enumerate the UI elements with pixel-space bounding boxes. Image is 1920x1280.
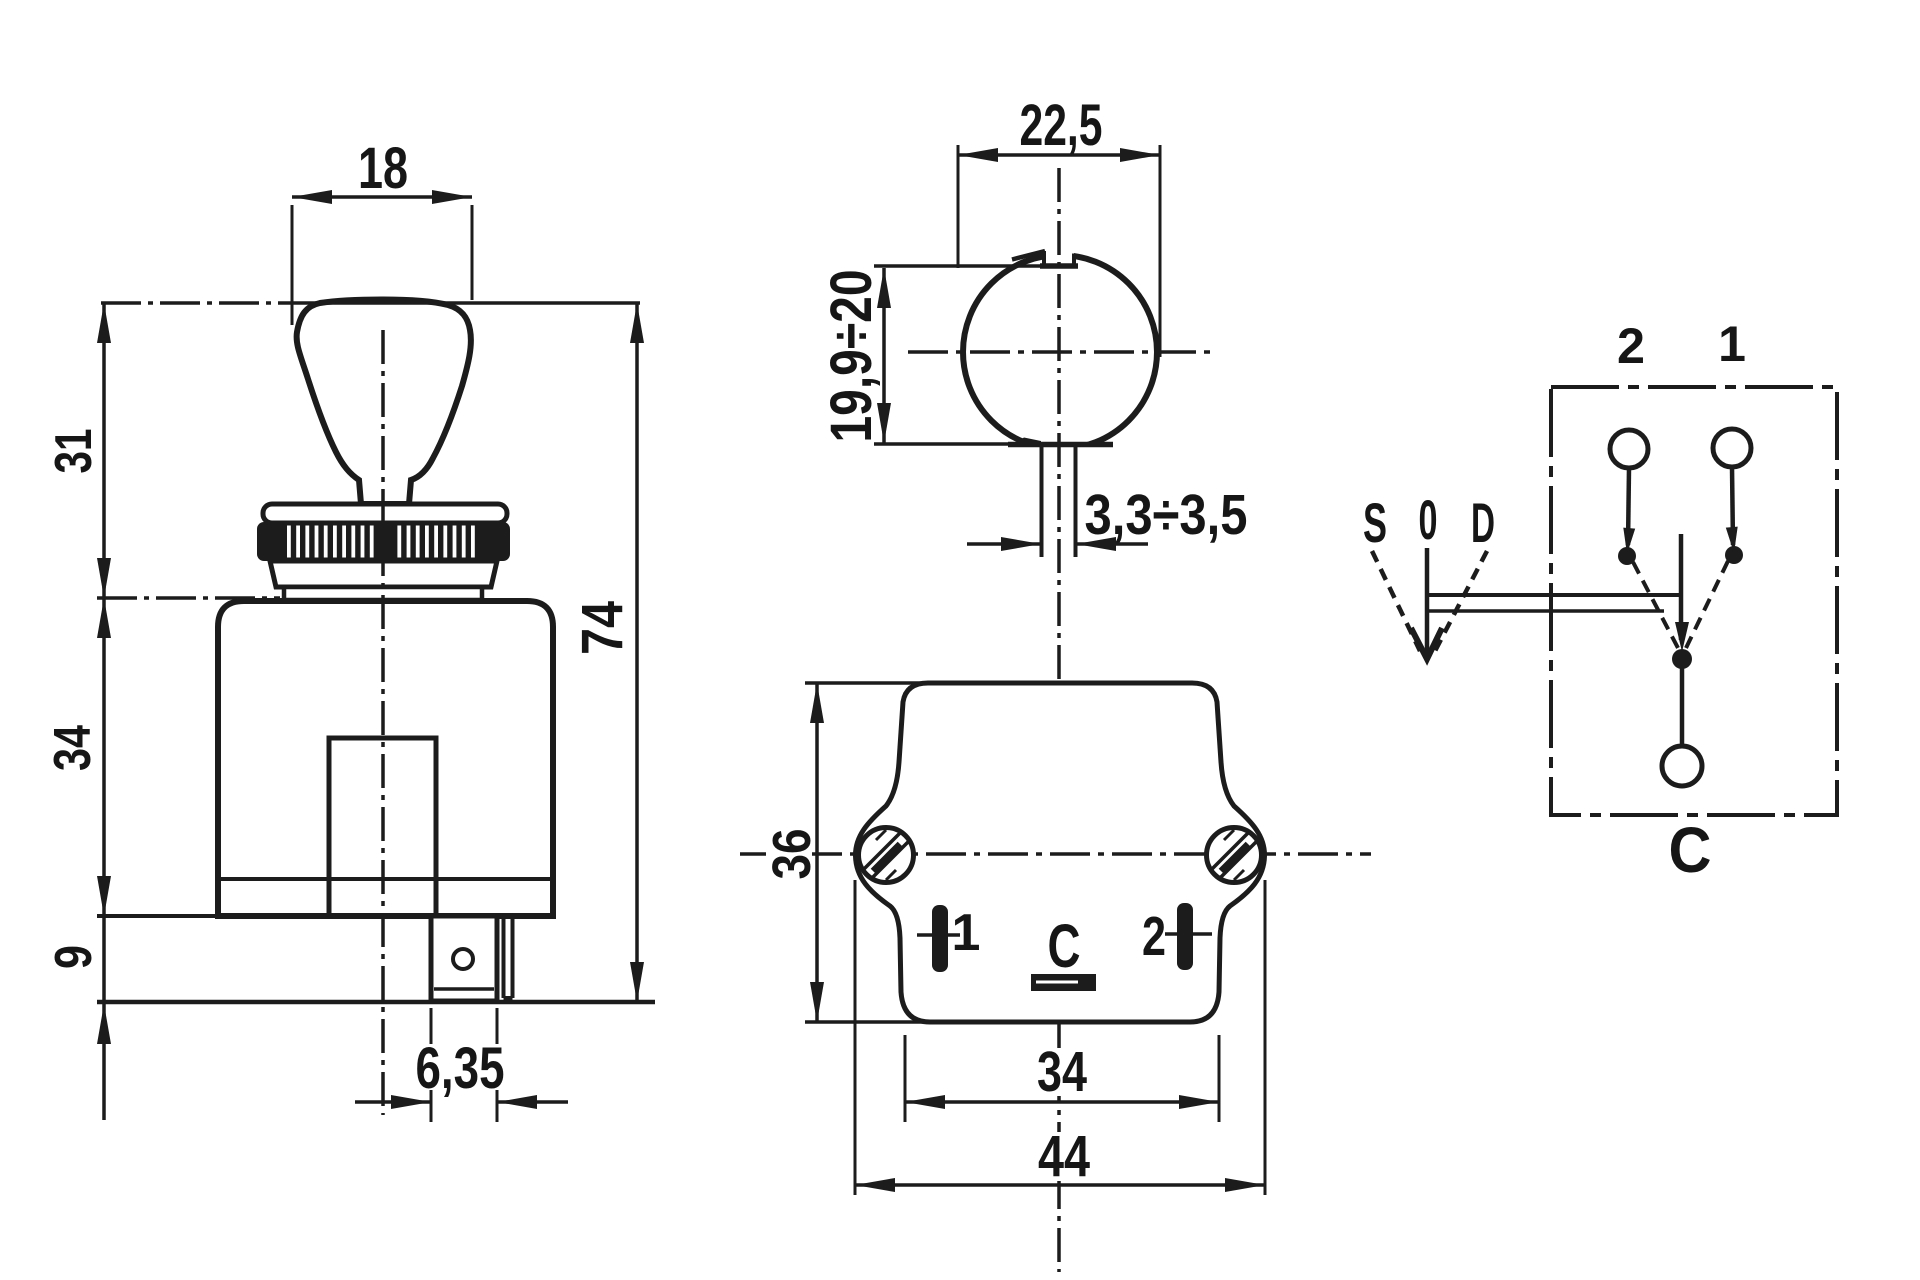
svg-text:1: 1 xyxy=(1718,316,1746,372)
terminal C slot xyxy=(1031,974,1096,991)
centerlines of top view xyxy=(908,350,1214,354)
svg-text:34: 34 xyxy=(1037,1040,1087,1104)
blade hole xyxy=(453,949,473,969)
svg-text:3,3÷3,5: 3,3÷3,5 xyxy=(1085,483,1248,547)
dimension 19,9-20 xyxy=(882,268,886,443)
lever D position dashed xyxy=(1434,551,1487,653)
bottom flat and slot xyxy=(1029,444,1091,470)
svg-text:74: 74 xyxy=(570,601,635,655)
left screw xyxy=(859,828,914,883)
base outline with ears xyxy=(855,683,1264,1022)
svg-text:2: 2 xyxy=(1617,318,1645,374)
terminal 2 slot xyxy=(1177,903,1193,970)
top datum line (y=303) xyxy=(101,301,295,305)
terminal 1 circle xyxy=(1713,429,1751,467)
body flange line xyxy=(218,877,553,881)
nut bottom lip xyxy=(284,587,482,600)
schematic dash-dot border xyxy=(1551,387,1837,815)
knob (toggle lever) xyxy=(297,300,471,505)
svg-text:31: 31 xyxy=(45,429,103,474)
svg-text:0: 0 xyxy=(1419,488,1438,551)
dimension 74 xyxy=(635,303,639,1002)
base horizontal centerline xyxy=(740,852,1371,856)
base line (bottom datum) xyxy=(97,1000,655,1005)
svg-text:44: 44 xyxy=(1038,1124,1090,1189)
dashed throw 1-C xyxy=(1686,561,1728,648)
slot lines 3,3-3,5 xyxy=(1040,444,1044,557)
svg-text:D: D xyxy=(1471,491,1495,554)
svg-text:19,9÷20: 19,9÷20 xyxy=(819,270,884,443)
svg-text:9: 9 xyxy=(45,945,103,969)
body inner window xyxy=(329,738,436,916)
dimension 36 xyxy=(766,824,812,884)
dashed throw 2-C xyxy=(1633,562,1678,648)
knob circle xyxy=(963,255,1157,449)
svg-text:C: C xyxy=(1669,814,1712,886)
svg-text:S: S xyxy=(1363,491,1387,554)
terminal C circle xyxy=(1662,746,1702,786)
svg-text:18: 18 xyxy=(358,136,408,201)
moving contact arm xyxy=(1679,534,1684,640)
contact stem from 1 xyxy=(1732,467,1733,545)
lever S position dashed xyxy=(1372,551,1420,651)
terminal blade (front) xyxy=(431,916,497,1001)
nut lower rim xyxy=(270,561,497,587)
center line of side view xyxy=(381,330,385,1115)
svg-text:C: C xyxy=(1048,912,1081,980)
dimension 44 xyxy=(854,880,857,1195)
lever 0 position line with arrow xyxy=(1425,548,1430,655)
right screw xyxy=(1207,828,1262,883)
contact stem from 2 xyxy=(1628,468,1629,545)
svg-text:6,35: 6,35 xyxy=(416,1036,505,1101)
terminal 2 circle xyxy=(1610,430,1648,468)
dimension 6,35 xyxy=(430,1008,433,1122)
dimension 34 (base) xyxy=(904,1035,907,1122)
switch body xyxy=(218,601,553,916)
svg-text:34: 34 xyxy=(44,725,102,771)
terminal 1 slot xyxy=(932,905,948,972)
knurled ring (black band with stripes) xyxy=(257,522,510,561)
top flat notch xyxy=(1044,244,1074,267)
left dimension chain line xyxy=(102,303,106,1120)
knurled nut top cap xyxy=(263,504,507,523)
body bottom extension line xyxy=(97,914,218,918)
dash-dot line at nut/body joint xyxy=(97,596,280,600)
actuator linkage double line xyxy=(1427,593,1680,597)
svg-text:22,5: 22,5 xyxy=(1020,93,1103,158)
svg-text:2: 2 xyxy=(1142,905,1166,967)
svg-text:1: 1 xyxy=(952,904,981,962)
terminal blade (edge-on) xyxy=(502,916,506,998)
svg-text:36: 36 xyxy=(762,829,822,880)
